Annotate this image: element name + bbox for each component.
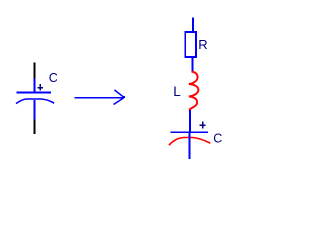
polarity + mark (right capacitor) <box>199 121 205 128</box>
arrow head <box>114 90 126 105</box>
wire: left capacitor bottom lead (black segment) <box>34 120 36 135</box>
arrow (left to right) shaft <box>75 97 124 99</box>
capacitor C2 (right) top plate <box>171 131 209 133</box>
wire: left capacitor top lead (black segment) <box>34 62 36 78</box>
svg-text:C: C <box>213 132 222 146</box>
wire: left capacitor top lead (blue segment) <box>34 78 36 93</box>
svg-text:L: L <box>173 84 181 99</box>
capacitor C1 (left) curved bottom plate <box>16 99 54 104</box>
wire: left capacitor bottom lead (blue segment) <box>34 100 36 120</box>
resistor R1 body <box>185 32 196 57</box>
inductor L1 coil <box>189 72 199 113</box>
wire: inductor to capacitor <box>189 110 191 131</box>
polarity + mark (left capacitor) <box>38 84 44 90</box>
capacitor C2 (right) curved bottom plate (red) <box>169 138 210 146</box>
svg-text:R: R <box>198 37 207 52</box>
wire: top lead into resistor <box>192 18 194 32</box>
wire: right capacitor bottom lead <box>189 133 191 159</box>
wire: resistor to inductor <box>191 58 193 72</box>
svg-text:C: C <box>49 71 58 85</box>
capacitor C1 (left) top plate <box>16 92 51 94</box>
